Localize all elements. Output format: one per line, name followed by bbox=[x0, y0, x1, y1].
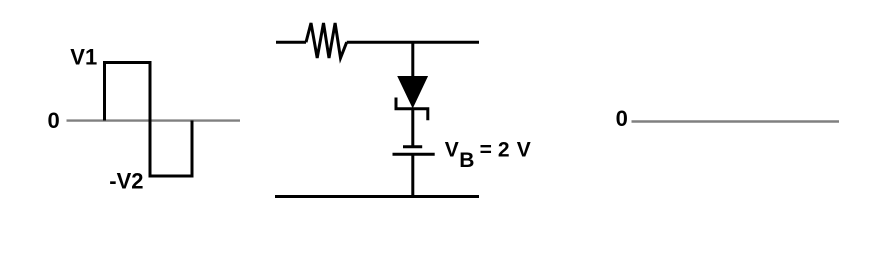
svg-text:2: 2 bbox=[498, 138, 510, 161]
battery VB (short plate top, long plate bottom) bbox=[393, 147, 435, 155]
zener diode D1 (anode top, cathode bottom) bbox=[396, 77, 428, 121]
svg-text:=: = bbox=[480, 138, 492, 161]
svg-text:-V2: -V2 bbox=[109, 168, 143, 193]
wire: vertical from top rail to diode anode bbox=[411, 42, 414, 78]
label VB = 2 V (battery value) bbox=[445, 138, 531, 172]
wire: diode cathode to battery top plate bbox=[411, 109, 414, 147]
input square wave trace bbox=[105, 63, 193, 177]
wire: bottom rail bbox=[275, 195, 479, 198]
resistor R (series zigzag) bbox=[306, 23, 347, 58]
wire: top rail left segment bbox=[276, 41, 306, 44]
wire: battery bottom plate to bottom rail bbox=[411, 154, 414, 197]
svg-text:B: B bbox=[459, 149, 474, 172]
input waveform zero axis bbox=[67, 119, 241, 121]
svg-text:V: V bbox=[445, 138, 459, 161]
wire: top rail right segment bbox=[347, 41, 479, 44]
svg-text:V: V bbox=[517, 138, 531, 161]
svg-text:V1: V1 bbox=[70, 45, 97, 70]
output waveform zero axis bbox=[632, 120, 840, 122]
svg-text:0: 0 bbox=[616, 106, 628, 131]
svg-text:0: 0 bbox=[48, 108, 60, 133]
